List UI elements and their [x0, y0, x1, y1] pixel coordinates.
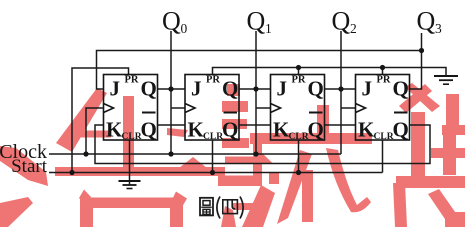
watermark caption-area wedge [242, 185, 275, 227]
svg-text:Q: Q [222, 77, 238, 101]
svg-text:0: 0 [181, 21, 188, 36]
watermark short bar piece A [67, 131, 111, 138]
svg-text:PR: PR [206, 75, 220, 86]
wire Q0 stub / FF2 clock riser [170, 31, 172, 154]
watermark red text strokes [0, 83, 465, 227]
U1 pin labels J PR Q K CLR Qbar [106, 75, 157, 143]
svg-text:CLR: CLR [122, 132, 142, 142]
node clock riser3 junction [253, 151, 258, 156]
watermark char TI leg2 [428, 189, 460, 225]
watermark char TI right vertical lower [443, 135, 456, 175]
watermark char TI x-stroke1 [399, 84, 432, 113]
caption right parenthesis [240, 197, 243, 219]
wire Q0 output to J2 input [158, 88, 186, 90]
svg-text:J: J [277, 77, 288, 101]
watermark char SHI tick [317, 105, 329, 134]
node FF3 preset junction [296, 65, 301, 70]
wire Q0 inverted output to K2 input [158, 124, 186, 126]
node FF4 preset junction [380, 65, 385, 70]
U4 pin labels J PR Q K CLR Qbar [358, 75, 409, 143]
svg-text:CLR: CLR [289, 132, 309, 142]
watermark stroke bottom-left wedge [0, 197, 33, 227]
node FF3 clear junction [296, 170, 301, 175]
node Q3 top junction [419, 48, 424, 53]
watermark char TI bottom band [396, 176, 465, 188]
wire FF1 preset to Start line [72, 68, 129, 173]
watermark char SHI bottom vertical [302, 170, 313, 222]
ground symbol top right [434, 76, 458, 84]
watermark char GAO diagonal stroke [56, 88, 107, 152]
watermark char GAO mouth left corner peak [79, 190, 91, 206]
watermark wedge piece B [167, 128, 188, 137]
flip-flop U1 box [104, 75, 158, 141]
wire FF3 clock branch [256, 107, 271, 109]
watermark big left wedge stroke [0, 146, 48, 186]
watermark char GAO mouth right [170, 198, 183, 228]
svg-text:CLR: CLR [374, 132, 394, 142]
svg-text:K: K [188, 118, 205, 142]
svg-text:Q: Q [222, 118, 238, 142]
watermark triangle wedge on long bar [179, 157, 207, 168]
watermark char SHI speech bar2 [222, 119, 247, 129]
svg-text:K: K [273, 118, 290, 142]
node FF2 clear junction [210, 170, 215, 175]
wire FF2 clear drop [212, 140, 214, 173]
svg-text:PR: PR [377, 75, 391, 86]
watermark char TI left vertical [411, 112, 425, 177]
svg-text:J: J [362, 77, 373, 101]
svg-text:J: J [110, 77, 121, 101]
wire preset line FF2-FF4 to top-right ground [213, 68, 447, 76]
watermark char SHI small vertical [253, 144, 262, 178]
caption glyph TU (figure) [200, 198, 213, 216]
wire Q1 output to J3 input [239, 88, 271, 90]
svg-text:Q: Q [393, 77, 409, 101]
wire FF4 clock branch [341, 107, 356, 109]
watermark char SHI long bar [250, 133, 372, 144]
watermark caption-area band [233, 203, 269, 210]
wire Q2 inverted output to K4 input [325, 124, 356, 126]
svg-text:Q: Q [247, 7, 266, 36]
watermark char SHI speech bar3 [222, 138, 249, 148]
svg-text:J: J [191, 77, 202, 101]
svg-text:1: 1 [265, 21, 272, 36]
U1 Qbar overline [142, 112, 156, 114]
svg-text:Q: Q [141, 118, 157, 142]
watermark char TI band1 [442, 125, 465, 135]
wire FF1 clear to bottom ground [129, 140, 131, 185]
wire Q3 feedback top line to J1 [97, 51, 422, 90]
wire FF4 clear drop [382, 140, 384, 173]
node label Q0 [162, 7, 188, 37]
node label Q1 [247, 7, 272, 37]
watermark char SHI speech dot [227, 84, 240, 96]
caption glyph SI (four) [223, 200, 238, 214]
svg-text:Q: Q [393, 118, 409, 142]
watermark char TI band2 [431, 148, 465, 158]
watermark char SHI hook stroke [326, 148, 371, 212]
watermark triangle wedge near FF3 riser [254, 153, 273, 164]
U3 Qbar overline [309, 112, 323, 114]
watermark caption-area wedge2 [221, 206, 236, 227]
watermark char TI corner piece [445, 212, 465, 227]
watermark char SHI speech bar4 [225, 157, 255, 165]
flip-flop U3 box [271, 75, 325, 141]
node label Q2 [332, 7, 357, 37]
U2 clock triangle [185, 104, 195, 113]
wire FF4 preset stub [382, 68, 384, 75]
svg-text:Start: Start [11, 156, 48, 177]
wire Q2 output to J4 input [325, 88, 356, 90]
wire start bus [49, 172, 383, 174]
watermark char TI top-right vertical [446, 94, 459, 135]
flip-flop U4 box [356, 75, 410, 141]
node label Q3 [417, 7, 443, 37]
flip-flop U2 box [185, 75, 239, 141]
wire Q3 output stub [410, 33, 422, 89]
watermark char GAO mouth left [80, 198, 93, 228]
watermark char GAO long bar [55, 167, 225, 176]
svg-text:2: 2 [350, 21, 357, 36]
svg-text:CLR: CLR [203, 132, 223, 142]
node Q2 output junction [338, 86, 343, 91]
caption left parenthesis [217, 197, 220, 219]
wire FF1 clock riser [86, 108, 104, 154]
watermark char SHI speech bar1 [222, 101, 248, 112]
watermark char SHI speech mouth [218, 176, 262, 187]
svg-text:Q: Q [308, 77, 324, 101]
U4 Qbar overline [394, 112, 408, 114]
wire clock bus [49, 153, 341, 155]
wire Q1 stub / FF3 clock riser [255, 31, 257, 154]
svg-text:3: 3 [435, 21, 442, 36]
watermark char SHI left-falling stroke [277, 150, 312, 224]
U2 pin labels J PR Q K CLR Qbar [188, 75, 239, 143]
watermark char GAO vertical stroke [123, 96, 134, 170]
wire FF2 clock branch [171, 107, 185, 109]
svg-text:Q: Q [162, 7, 181, 36]
node Q0 output junction [168, 86, 173, 91]
watermark small piece right of mouth bar [269, 172, 279, 184]
ground symbol bottom (FF1 clear) [119, 181, 141, 189]
svg-text:PR: PR [292, 75, 306, 86]
node Q1 output junction [253, 86, 258, 91]
svg-text:Q: Q [141, 77, 157, 101]
U4 clock triangle [356, 104, 366, 113]
svg-text:Q: Q [417, 7, 436, 36]
watermark char TI leg1 [393, 183, 407, 227]
svg-text:K: K [106, 118, 123, 142]
wire FF3 preset stub [298, 68, 300, 75]
U3 pin labels J PR Q K CLR Qbar [273, 75, 324, 143]
node start-preset junction [69, 170, 74, 175]
U2 Qbar overline [224, 112, 238, 114]
watermark char TI x-stroke2 [405, 83, 440, 112]
svg-text:Q: Q [308, 118, 324, 142]
U1 clock triangle [104, 104, 114, 113]
svg-text:K: K [358, 118, 375, 142]
svg-text:PR: PR [125, 75, 139, 86]
wire Q3 inverted feedback to K1 [95, 125, 430, 164]
U3 clock triangle [271, 104, 281, 113]
node clock riser2 junction [168, 151, 173, 156]
svg-text:Q: Q [332, 7, 351, 36]
node clock riser1 junction [83, 151, 88, 156]
wire Q2 stub / FF4 clock riser [340, 31, 342, 154]
wire Q1 inverted output to K3 input [239, 124, 271, 126]
watermark char GAO mouth top [80, 198, 183, 209]
wire FF3 clear drop [298, 140, 300, 173]
watermark char GAO mouth corner peak [170, 192, 187, 208]
